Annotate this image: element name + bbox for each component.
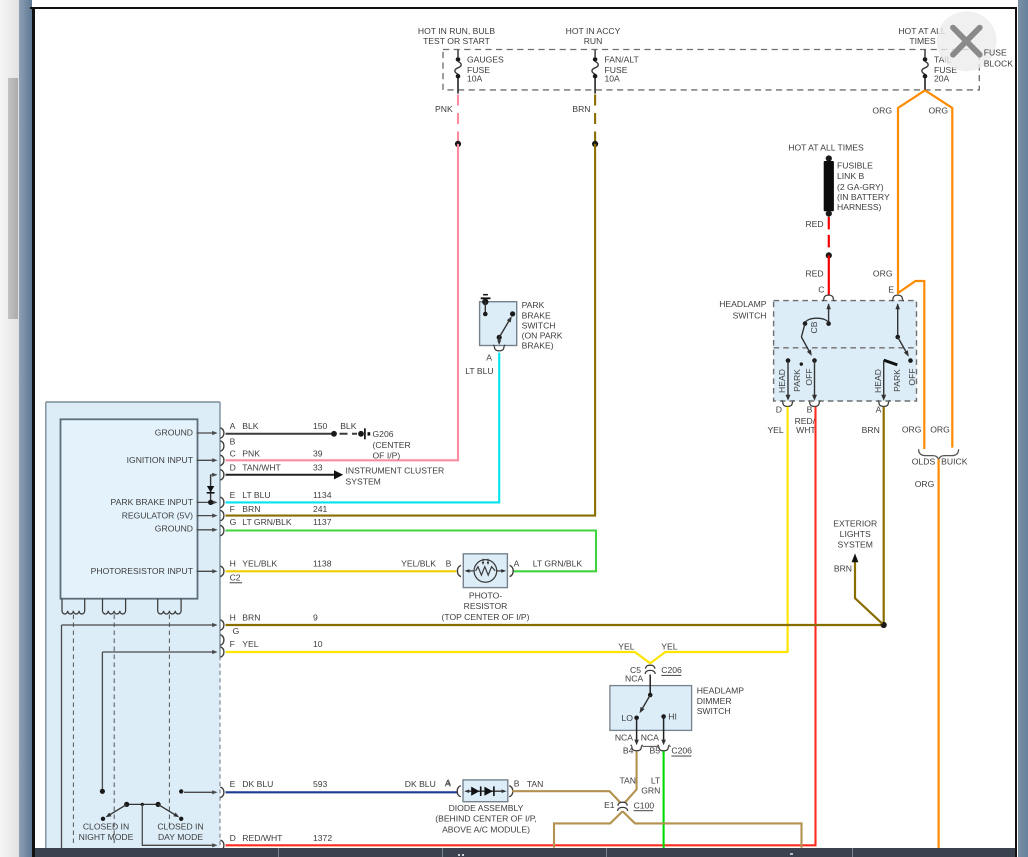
row H BRN 9 labels	[230, 613, 318, 623]
night/day mode switch	[106, 802, 180, 817]
labels ORG above OLDS/BUICK brace	[902, 424, 950, 434]
photo-resistor (TOP CENTER OF I/P)	[463, 554, 507, 588]
switch blade C-side (OFF position)	[801, 324, 811, 356]
svg-text:A: A	[876, 405, 882, 415]
wire PNK (dashed, fuse block internal)	[435, 95, 458, 142]
svg-text:C2: C2	[230, 573, 241, 583]
svg-text:C: C	[230, 448, 236, 458]
wire PNK 39 to instrument cluster pin C	[226, 144, 459, 460]
coil winding 3	[158, 599, 181, 614]
svg-text:H: H	[230, 559, 236, 569]
svg-text:1137: 1137	[313, 517, 332, 527]
svg-text:C: C	[818, 284, 824, 294]
svg-text:OFF: OFF	[804, 368, 814, 385]
svg-text:GROUND: GROUND	[155, 427, 193, 437]
instrument cluster inner module	[61, 419, 198, 598]
svg-text:593: 593	[313, 779, 328, 789]
svg-text:SYSTEM: SYSTEM	[346, 476, 381, 486]
svg-text:F: F	[230, 504, 235, 514]
node HOT AT ALL TIMES (tail fuse)	[898, 26, 946, 46]
contact LO	[622, 713, 639, 723]
park brake switch pin A exit	[465, 337, 505, 376]
svg-text:RED/WHT: RED/WHT	[242, 833, 283, 843]
coil winding 2	[103, 599, 126, 614]
svg-text:B: B	[514, 778, 520, 788]
svg-text:YEL/BLK: YEL/BLK	[242, 559, 277, 569]
svg-text:GAUGES: GAUGES	[467, 54, 504, 64]
headlamp switch (dashed box)	[774, 301, 917, 401]
svg-text:ORG: ORG	[915, 479, 935, 489]
junction BRN	[881, 622, 887, 628]
svg-text:PARK BRAKE INPUT: PARK BRAKE INPUT	[111, 497, 194, 507]
svg-text:HEAD: HEAD	[873, 369, 883, 393]
svg-text:ORG: ORG	[872, 106, 892, 116]
bridge contact HEAD-PARK (right)	[884, 360, 898, 365]
pin B of diode assembly	[509, 778, 520, 796]
svg-text:LT BLU: LT BLU	[465, 366, 493, 376]
wire BRN from headlamp switch A	[883, 407, 885, 625]
svg-text:YEL: YEL	[767, 425, 783, 435]
wire YEL/BLK 1138 cluster pin H to photoresistor B	[226, 570, 457, 572]
splice on BLK wire	[331, 431, 337, 437]
svg-text:BLK: BLK	[242, 421, 259, 431]
svg-text:39: 39	[313, 448, 323, 458]
svg-text:10A: 10A	[467, 73, 483, 83]
svg-text:PNK: PNK	[435, 104, 453, 114]
row E DK BLU labels	[230, 778, 452, 789]
svg-text:HOT AT ALL TIMES: HOT AT ALL TIMES	[788, 143, 864, 153]
wire LO to pin B4	[631, 718, 643, 751]
svg-text:A: A	[230, 421, 236, 431]
svg-text:INSTRUMENT CLUSTER: INSTRUMENT CLUSTER	[346, 466, 445, 476]
wire TAN diode assembly B to connector E1	[512, 779, 620, 803]
ground G206 (CENTER OF I/P)	[358, 428, 411, 460]
splice on BRN wire	[592, 141, 598, 147]
svg-text:BLK: BLK	[340, 421, 357, 431]
pin A of photoresistor	[510, 559, 520, 577]
svg-text:1372: 1372	[313, 833, 332, 843]
svg-text:SWITCH: SWITCH	[697, 706, 731, 716]
svg-text:ORG: ORG	[930, 424, 950, 434]
svg-text:RED: RED	[805, 268, 823, 278]
node HOT IN RUN, BULB TEST OR START	[418, 26, 495, 46]
svg-text:E: E	[888, 284, 894, 294]
svg-text:LO: LO	[622, 713, 634, 723]
svg-text:LINK B: LINK B	[837, 171, 864, 181]
label CLOSED IN DAY MODE	[157, 822, 203, 843]
wire LT GRN/BLK 1137 cluster pin G to photoresistor A	[226, 531, 597, 572]
svg-text:B5: B5	[649, 746, 660, 756]
svg-text:E1: E1	[604, 800, 615, 810]
svg-text:EXTERIOR: EXTERIOR	[833, 518, 877, 528]
svg-text:9: 9	[313, 613, 318, 623]
label GROUND (pin G)	[155, 524, 218, 534]
svg-text:LT: LT	[651, 776, 661, 786]
row H YEL/BLK labels	[230, 559, 452, 569]
connector E1 / C100	[604, 800, 654, 811]
labels HEAD PARK OFF (left switch)	[777, 368, 814, 393]
svg-text:1138: 1138	[313, 559, 332, 569]
svg-text:DIMMER: DIMMER	[697, 696, 732, 706]
svg-text:YEL: YEL	[618, 641, 634, 651]
wire BRN 241 to instrument cluster pin F	[226, 144, 596, 516]
label PARK BRAKE INPUT (pin E)	[111, 497, 218, 507]
svg-text:PHOTO-: PHOTO-	[469, 591, 502, 601]
svg-text:C206: C206	[661, 665, 682, 675]
svg-text:HOT IN RUN, BULB: HOT IN RUN, BULB	[418, 26, 495, 36]
svg-text:G: G	[230, 517, 237, 527]
wire BLK 150 (pin A)	[226, 421, 357, 434]
wire HI to pin B5	[658, 717, 670, 751]
wire LT BLU 1134 park brake switch to cluster pin E	[226, 353, 500, 503]
contact OFF (right)	[908, 358, 913, 363]
svg-text:PNK: PNK	[242, 448, 260, 458]
svg-text:OF I/P): OF I/P)	[373, 451, 401, 461]
svg-text:SWITCH: SWITCH	[522, 320, 556, 330]
connector C2 pin arcs (cluster upper)	[220, 428, 224, 577]
pin B of headlamp switch	[807, 401, 821, 415]
labels HEAD PARK OFF (right switch)	[873, 368, 917, 393]
pin A of headlamp switch	[876, 401, 890, 415]
brace OLDS/BUICK	[919, 449, 959, 459]
svg-text:TAN: TAN	[527, 779, 544, 789]
svg-text:TAN/WHT: TAN/WHT	[242, 463, 281, 473]
row F BRN labels	[230, 504, 328, 514]
svg-text:FUSE: FUSE	[984, 47, 1007, 57]
svg-text:FAN/ALT: FAN/ALT	[605, 54, 640, 64]
diode assembly (BEHIND CENTER OF I/P, ABOVE A/C MODULE)	[463, 780, 508, 802]
svg-text:ORG: ORG	[929, 106, 949, 116]
node HOT AT ALL TIMES (fusible link)	[788, 143, 864, 153]
svg-text:HARNESS): HARNESS)	[837, 202, 882, 212]
svg-text:D: D	[776, 405, 782, 415]
label REGULATOR (5V) (pin F)	[122, 511, 218, 521]
svg-text:SYSTEM: SYSTEM	[838, 540, 873, 550]
svg-text:G206: G206	[373, 429, 394, 439]
svg-text:WHT: WHT	[796, 425, 816, 435]
svg-text:BRN: BRN	[862, 425, 880, 435]
svg-text:BRN: BRN	[834, 563, 852, 573]
svg-text:A: A	[486, 352, 492, 362]
svg-text:YEL: YEL	[242, 639, 258, 649]
wire ORG branch to OLDS	[898, 281, 924, 449]
pin A of diode assembly	[445, 778, 461, 796]
svg-text:YEL/BLK: YEL/BLK	[401, 559, 436, 569]
svg-text:CB: CB	[809, 321, 819, 333]
splice on RED wire	[826, 252, 832, 258]
wire BRN 9 cluster pin H row	[226, 624, 884, 626]
svg-text:HI: HI	[668, 712, 677, 722]
svg-text:1134: 1134	[313, 490, 332, 500]
svg-text:CLOSED IN: CLOSED IN	[157, 822, 203, 832]
pin C of headlamp switch	[818, 284, 834, 301]
svg-text:NIGHT MODE: NIGHT MODE	[79, 832, 134, 842]
node EXTERIOR LIGHTS SYSTEM	[833, 518, 877, 549]
wire internal to pin F (YEL 10)	[102, 650, 217, 789]
contact HEAD (right) wire to pin A	[881, 360, 886, 400]
svg-text:LT GRN/BLK: LT GRN/BLK	[533, 559, 583, 569]
instrument cluster module (outer box)	[46, 402, 220, 849]
label PHOTO-RESISTOR (TOP CENTER OF I/P)	[441, 591, 529, 622]
node OLDS	[912, 457, 936, 467]
svg-text:GRN: GRN	[641, 786, 660, 796]
svg-text:HEADLAMP: HEADLAMP	[697, 686, 745, 696]
pin D of headlamp switch	[776, 401, 794, 415]
fuse TAIL FUSE 20A	[922, 50, 957, 91]
svg-text:NCA: NCA	[615, 733, 633, 743]
pin E of headlamp switch	[888, 284, 903, 301]
svg-text:OLDS: OLDS	[912, 457, 936, 467]
wire TAN from dimmer B4	[619, 751, 636, 802]
svg-text:TAN: TAN	[619, 776, 636, 786]
fuse block (dashed box)	[443, 50, 979, 90]
contact night-mode feed	[100, 789, 105, 794]
wire BRN (dashed, fuse block internal)	[572, 95, 595, 142]
wire OFF contact to pin B	[812, 361, 817, 401]
headlamp dimmer switch box	[610, 686, 692, 731]
svg-text:(TOP CENTER OF I/P): (TOP CENTER OF I/P)	[441, 612, 529, 622]
wire TAN splits below connector E1	[554, 811, 802, 848]
contact OFF (left)	[812, 358, 817, 363]
svg-text:B: B	[230, 437, 236, 447]
wire internal to pin H (BRN 9)	[62, 623, 218, 849]
wire RED/WHT 1372 cluster pin D to headlamp switch pin B	[226, 407, 816, 846]
svg-text:RED: RED	[805, 219, 823, 229]
label HEADLAMP DIMMER SWITCH	[697, 686, 745, 716]
svg-text:(BEHIND CENTER OF I/P,: (BEHIND CENTER OF I/P,	[435, 814, 537, 824]
row G LT GRN/BLK labels	[230, 517, 332, 527]
svg-text:(ON PARK: (ON PARK	[522, 331, 563, 341]
svg-text:BUICK: BUICK	[941, 457, 968, 467]
wire ORG below brace to bottom	[915, 459, 939, 848]
connector C206 labels (B4 B5)	[615, 733, 692, 757]
svg-text:(CENTER: (CENTER	[373, 440, 411, 450]
label ORG at headlamp switch pin E	[873, 268, 893, 278]
wire ORG (tail fuse split, right branch BUICK)	[925, 90, 952, 447]
coil winding 1	[62, 599, 85, 614]
svg-text:F: F	[230, 639, 235, 649]
svg-text:YEL: YEL	[661, 641, 677, 651]
label DIODE ASSEMBLY	[435, 803, 537, 834]
svg-text:A: A	[445, 778, 451, 788]
row E LT BLU labels	[230, 490, 332, 500]
wire internal to pin E (DK BLU)	[179, 789, 218, 794]
svg-text:C206: C206	[671, 746, 692, 756]
svg-text:HOT IN ACCY: HOT IN ACCY	[566, 26, 621, 36]
svg-text:DIODE ASSEMBLY: DIODE ASSEMBLY	[449, 803, 524, 813]
label IGNITION INPUT (pin C)	[127, 455, 218, 465]
svg-text:ABOVE A/C MODULE): ABOVE A/C MODULE)	[442, 824, 530, 834]
wire DK BLU 593 cluster pin E to diode assembly A	[226, 791, 458, 793]
label PHOTORESISTOR INPUT (pin H)	[91, 566, 218, 576]
svg-text:H: H	[230, 613, 236, 623]
wire RED to headlamp switch pin C	[805, 255, 828, 294]
fusible link B (2 GA-GRY)	[824, 155, 890, 216]
labels YEL at dimmer junction	[618, 641, 678, 651]
dashed link lines from coils	[73, 615, 169, 847]
svg-text:LT BLU: LT BLU	[242, 490, 270, 500]
pin B letter	[230, 437, 236, 447]
svg-text:PARK: PARK	[792, 369, 802, 392]
connector C1 pin arcs (cluster lower)	[220, 620, 224, 851]
ground (park brake switch case)	[481, 295, 491, 317]
svg-text:ORG: ORG	[902, 424, 922, 434]
svg-text:(IN BATTERY: (IN BATTERY	[837, 192, 890, 202]
svg-text:20A: 20A	[934, 73, 950, 83]
connector label C2	[230, 573, 243, 584]
dimmer switch blade	[640, 675, 653, 714]
svg-text:E: E	[230, 490, 236, 500]
svg-text:HEADLAMP: HEADLAMP	[719, 299, 767, 309]
svg-text:IGNITION INPUT: IGNITION INPUT	[127, 455, 194, 465]
svg-text:241: 241	[313, 504, 328, 514]
label CLOSED IN NIGHT MODE	[79, 822, 134, 843]
diode D1 inside cluster (pin D to pin E)	[207, 473, 218, 505]
svg-text:TEST OR START: TEST OR START	[423, 36, 491, 46]
switch blade E-side	[895, 303, 908, 357]
wire YEL 10 from headlamp switch D to dimmer switch and cluster pin F	[226, 407, 788, 664]
label HEADLAMP SWITCH	[719, 299, 767, 320]
svg-text:G: G	[233, 626, 240, 636]
wire switch common to pin D (RED/WHT)	[142, 804, 217, 847]
node BUICK	[941, 457, 968, 467]
contact CLOSED IN DAY MODE	[179, 817, 183, 821]
svg-text:BRN: BRN	[572, 104, 590, 114]
svg-text:NCA: NCA	[625, 674, 643, 684]
svg-text:BRAKE: BRAKE	[522, 310, 551, 320]
svg-text:PARK: PARK	[522, 300, 545, 310]
svg-text:LIGHTS: LIGHTS	[840, 529, 871, 539]
svg-text:CLOSED IN: CLOSED IN	[83, 822, 129, 832]
svg-text:FUSIBLE: FUSIBLE	[837, 160, 873, 170]
svg-text:HEAD: HEAD	[777, 369, 787, 393]
label GROUND (pin A)	[155, 427, 218, 437]
wire ORG (tail fuse split, left branch to headlamp switch E)	[898, 90, 925, 294]
svg-text:DK BLU: DK BLU	[405, 779, 436, 789]
svg-text:(2 GA-GRY): (2 GA-GRY)	[837, 182, 884, 192]
svg-text:NCA: NCA	[641, 733, 659, 743]
wire BRN branch to exterior lights system	[834, 553, 882, 623]
svg-text:LT GRN/BLK: LT GRN/BLK	[242, 517, 292, 527]
svg-text:150: 150	[313, 421, 328, 431]
svg-text:B: B	[446, 559, 452, 569]
svg-text:C100: C100	[634, 800, 655, 810]
labels ORG at fuse split	[872, 106, 948, 116]
svg-text:GROUND: GROUND	[155, 524, 193, 534]
svg-text:ORG: ORG	[873, 268, 893, 278]
svg-text:PHOTORESISTOR INPUT: PHOTORESISTOR INPUT	[91, 566, 194, 576]
row D RED/WHT labels	[230, 833, 333, 843]
wire RED dashed below fusible link	[805, 217, 828, 251]
svg-text:REGULATOR (5V): REGULATOR (5V)	[122, 511, 193, 521]
contact CLOSED IN NIGHT MODE	[101, 817, 105, 821]
label PARK BRAKE SWITCH (ON PARK BRAKE)	[522, 300, 563, 350]
svg-text:BRN: BRN	[242, 504, 260, 514]
svg-text:D: D	[230, 833, 236, 843]
contact PARK (left, small)	[800, 362, 803, 365]
pin G letter (lower)	[233, 626, 240, 636]
row C PNK labels	[230, 448, 323, 458]
row F YEL 10 labels	[230, 639, 323, 649]
row D TAN/WHT labels and wire	[226, 463, 344, 480]
svg-text:RESISTOR: RESISTOR	[464, 601, 508, 611]
splice on PNK wire	[455, 141, 461, 147]
pin B of photoresistor	[457, 565, 461, 576]
svg-text:33: 33	[313, 463, 323, 473]
park brake switch box	[480, 302, 517, 346]
svg-text:A: A	[514, 559, 520, 569]
svg-text:E: E	[230, 779, 236, 789]
labels YEL RED/WHT BRN ORG under headlamp switch	[767, 416, 879, 435]
svg-text:10A: 10A	[605, 73, 621, 83]
svg-text:BRN: BRN	[242, 613, 260, 623]
contact HI	[661, 712, 677, 722]
svg-text:SWITCH: SWITCH	[733, 310, 767, 320]
wire LT GRN from dimmer B5	[641, 751, 663, 848]
svg-text:TIMES: TIMES	[909, 36, 936, 46]
svg-text:PARK: PARK	[892, 369, 902, 392]
label FUSE BLOCK	[0, 0, 1, 1]
node INSTRUMENT CLUSTER SYSTEM	[346, 466, 445, 487]
fuse GAUGES FUSE 10A	[455, 50, 504, 94]
fuse FAN/ALT FUSE 10A	[592, 50, 640, 94]
svg-text:DK BLU: DK BLU	[242, 779, 273, 789]
svg-text:B4: B4	[623, 746, 634, 756]
svg-text:OFF: OFF	[907, 368, 917, 385]
node HOT IN ACCY RUN	[566, 26, 621, 46]
svg-text:10: 10	[313, 639, 323, 649]
svg-text:D: D	[230, 463, 236, 473]
svg-text:BLOCK: BLOCK	[984, 58, 1013, 68]
connector C5 / C206	[625, 665, 682, 684]
contact HEAD (left) wire to pin D	[786, 358, 791, 400]
circuit breaker CB	[803, 303, 831, 333]
svg-text:BRAKE): BRAKE)	[522, 341, 554, 351]
close button overlay	[937, 11, 1014, 71]
svg-text:DAY MODE: DAY MODE	[158, 832, 203, 842]
svg-text:B: B	[807, 405, 813, 415]
wire BLK dashed to ground	[340, 433, 358, 435]
park brake switch blade	[497, 311, 516, 340]
svg-text:RUN: RUN	[584, 36, 603, 46]
